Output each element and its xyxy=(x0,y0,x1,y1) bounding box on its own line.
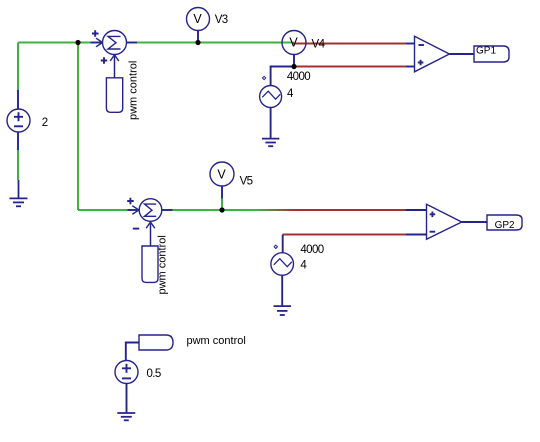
node dot B xyxy=(195,40,200,45)
svg-text:pwm control: pwm control xyxy=(128,61,140,120)
pwm control tag T1 xyxy=(106,78,122,113)
svg-text:4000: 4000 xyxy=(287,71,310,83)
svg-text:V4: V4 xyxy=(312,38,326,50)
wire left vertical from top to source V2 xyxy=(17,43,19,91)
svg-text:GP1: GP1 xyxy=(476,46,496,57)
op-amp U4 xyxy=(406,204,487,239)
voltage source V2 xyxy=(7,90,30,150)
svg-text:2: 2 xyxy=(42,117,48,129)
node dot A xyxy=(75,40,80,45)
voltage source V0.5 xyxy=(115,361,138,414)
sine source VS2 xyxy=(271,253,294,306)
wire red V4 to opamp1 minus input xyxy=(293,43,406,45)
svg-text:4: 4 xyxy=(300,260,307,272)
voltmeter V3 xyxy=(187,8,210,43)
svg-text:V5: V5 xyxy=(240,176,253,188)
summer U2 xyxy=(127,198,172,246)
svg-text:V: V xyxy=(289,35,298,49)
wire green below source V2 xyxy=(17,150,19,180)
sine source VS1 polarity mark xyxy=(262,76,265,79)
summer U1 xyxy=(91,30,138,78)
wire row2 horizontal to summer2 xyxy=(78,209,128,211)
pwm control tag T3 xyxy=(139,335,173,350)
wire blue tag T3 to source V3b xyxy=(126,343,139,361)
op-amp U3 xyxy=(406,36,474,72)
svg-text:pwm control: pwm control xyxy=(187,335,246,347)
svg-text:0.5: 0.5 xyxy=(147,368,161,380)
output tag GP2 xyxy=(487,215,522,230)
svg-text:4000: 4000 xyxy=(300,244,323,256)
sine source VS2 polarity mark xyxy=(274,245,277,248)
wire blue from node 4000 to sine source VS1 xyxy=(271,67,293,86)
svg-text:pwm control: pwm control xyxy=(156,235,168,294)
voltmeter V4 xyxy=(282,31,306,67)
svg-text:V: V xyxy=(193,12,202,26)
node dot 4000 xyxy=(291,64,296,69)
wire red node4000 to opamp1 plus input xyxy=(294,66,406,68)
wire green stub V5 to node xyxy=(221,199,223,211)
wire long vertical at x=78 xyxy=(77,43,79,211)
svg-text:V: V xyxy=(217,167,226,181)
wire top horizontal xyxy=(18,42,91,44)
ground G2 xyxy=(262,139,279,147)
svg-text:V3: V3 xyxy=(215,14,228,26)
sine source VS1 xyxy=(260,86,282,139)
node dot C xyxy=(219,207,224,212)
output tag GP1 xyxy=(474,46,509,62)
svg-text:4: 4 xyxy=(287,88,294,100)
ground G3 xyxy=(274,306,292,315)
voltmeter V5 xyxy=(210,162,234,199)
wire summer1 output to V4 xyxy=(137,42,294,44)
ground G1 xyxy=(10,180,28,206)
svg-text:GP2: GP2 xyxy=(495,220,515,231)
wire blue sine2 top lead xyxy=(282,235,284,254)
wire red sine2 to opamp2 minus input xyxy=(283,234,406,236)
wire summer2 output to node, green fading to red toward op-amp xyxy=(172,209,406,211)
pwm control tag T2 xyxy=(142,246,158,282)
ground G4 xyxy=(117,413,135,420)
